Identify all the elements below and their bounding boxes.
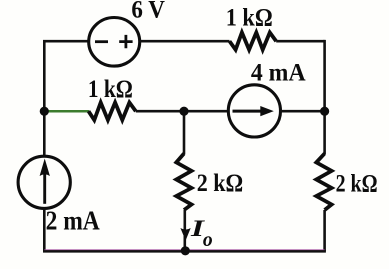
wire: middle branch lower vertical bbox=[184, 210, 187, 247]
wire: bottom rail purple fringe bbox=[44, 249, 324, 251]
wire: top rail left segment bbox=[43, 40, 90, 43]
wire: right branch between node and resistor bbox=[323, 111, 326, 154]
wire: middle rail left segment (green tinted) bbox=[44, 110, 89, 113]
current source I1 (2 mA) bbox=[18, 156, 70, 208]
wire: top rail middle segment bbox=[139, 40, 230, 43]
wire: middle rail center segment bbox=[136, 110, 229, 113]
wire: right branch lower vertical bbox=[323, 210, 326, 251]
current source I2 (4 mA) bbox=[228, 85, 280, 137]
wire: middle rail right segment bbox=[280, 110, 325, 113]
wire: bottom rail bbox=[43, 250, 326, 253]
voltage source V1 (6 V) bbox=[89, 18, 140, 67]
node B (center middle) bbox=[179, 107, 188, 116]
node A (left middle) bbox=[40, 107, 49, 116]
wire: top rail right segment bbox=[276, 40, 324, 43]
wire: left branch between node and 2 mA source bbox=[43, 111, 46, 157]
resistor R4 2 kOhm (right branch) bbox=[316, 154, 331, 211]
node D (bottom middle) bbox=[181, 246, 190, 255]
resistor R3 2 kOhm (middle branch) bbox=[176, 154, 191, 211]
node C (right middle) bbox=[320, 107, 329, 116]
resistor R2 1 kOhm (middle) bbox=[89, 103, 136, 121]
resistor R1 1 kOhm (top) bbox=[230, 33, 277, 50]
wire: left branch upper vertical bbox=[43, 41, 46, 111]
svg-text:1 kΩ: 1 kΩ bbox=[88, 76, 133, 103]
svg-text:2 mA: 2 mA bbox=[46, 205, 101, 235]
svg-text:o: o bbox=[203, 227, 213, 251]
wire: middle branch upper vertical bbox=[183, 111, 186, 154]
svg-text:2 kΩ: 2 kΩ bbox=[336, 170, 378, 197]
svg-text:6 V: 6 V bbox=[131, 0, 165, 24]
svg-text:2 kΩ: 2 kΩ bbox=[197, 170, 244, 197]
svg-text:1 kΩ: 1 kΩ bbox=[226, 4, 273, 31]
svg-text:4 mA: 4 mA bbox=[251, 60, 306, 87]
wire: right branch upper vertical bbox=[323, 40, 326, 111]
wire: left branch lower vertical bbox=[43, 208, 46, 251]
arrow: Io current direction bbox=[180, 228, 190, 241]
